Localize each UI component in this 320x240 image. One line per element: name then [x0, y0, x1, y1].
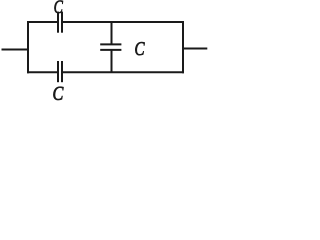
wire: left vertical	[27, 21, 29, 73]
wire: right vertical	[182, 21, 184, 73]
wire: top branch left segment	[27, 21, 57, 23]
wire: right lead	[183, 48, 207, 50]
wire: bottom branch left segment	[27, 71, 57, 73]
capacitor C middle branch	[100, 44, 121, 50]
wire: middle branch lower	[111, 51, 113, 74]
wire: left lead	[2, 49, 29, 51]
capacitor C bottom branch	[57, 61, 63, 82]
capacitor C top branch	[57, 12, 63, 33]
wire: top branch right segment	[63, 21, 184, 23]
wire: middle branch upper	[111, 21, 113, 44]
wire: bottom branch right segment	[63, 71, 184, 73]
label C (bottom capacitor)	[53, 87, 63, 100]
label C (top capacitor)	[54, 1, 63, 14]
label C (middle capacitor)	[135, 42, 144, 55]
